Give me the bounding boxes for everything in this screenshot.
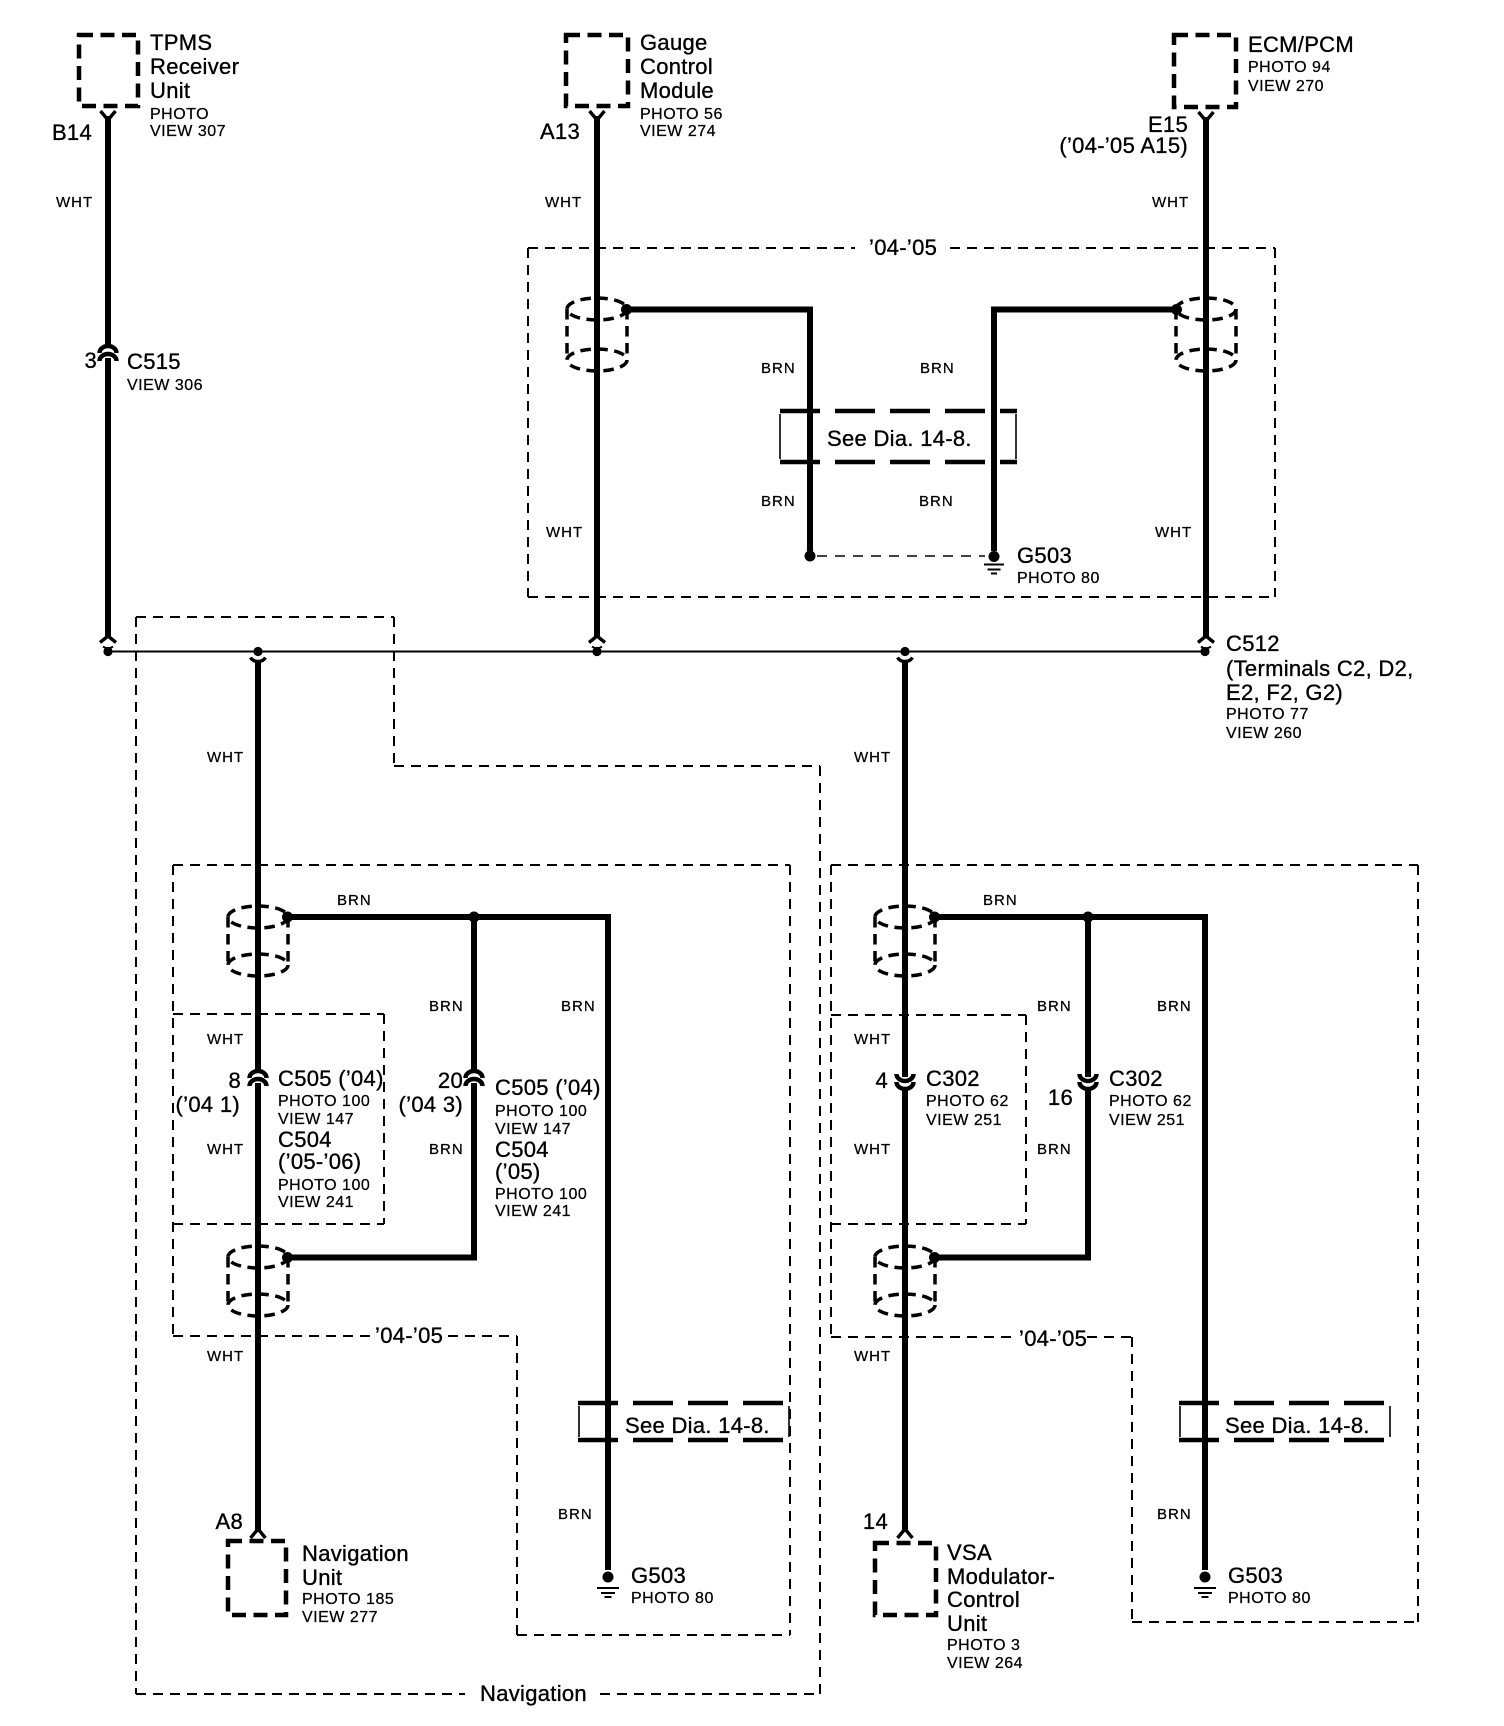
svg-text:VIEW 251: VIEW 251: [926, 1112, 1002, 1129]
svg-text:BRN: BRN: [761, 493, 796, 510]
connector symbol at bus end (TPMS wire): [100, 636, 116, 648]
svg-text:Modulator-: Modulator-: [947, 1564, 1055, 1589]
svg-text:B14: B14: [52, 120, 92, 145]
svg-text:C515: C515: [127, 349, 181, 374]
svg-text:WHT: WHT: [1155, 524, 1192, 541]
dashed region box '04-'05 (top, around gauge/ECM splices): [528, 235, 1275, 597]
svg-text:Navigation: Navigation: [480, 1681, 587, 1706]
svg-text:BRN: BRN: [1157, 998, 1192, 1015]
svg-text:BRN: BRN: [983, 892, 1018, 909]
svg-text:BRN: BRN: [561, 998, 596, 1015]
svg-text:G503: G503: [1228, 1563, 1283, 1588]
splice cylinder (Gauge wire, '04-'05): [567, 298, 627, 371]
connector symbol at bus end (Gauge wire): [589, 636, 605, 648]
wire WHT from C515 down to bus C512: [105, 358, 111, 636]
connector fork at ECM pin E15: [1199, 112, 1214, 121]
wire WHT from C505 pin 8 down to Navigation Unit: [255, 1083, 261, 1532]
wire WHT from TPMS B14 down to C515: [105, 116, 111, 348]
connector C505/C504 symbol at pin 20: [466, 1071, 483, 1086]
svg-text:VIEW 270: VIEW 270: [1248, 78, 1324, 95]
node dot on Gauge splice: [621, 304, 632, 315]
splice cylinder (Navigation branch upper, '04-'05): [228, 906, 288, 976]
splice cylinder (VSA branch upper, '04-'05): [875, 906, 935, 976]
connector C302 symbol at pin 16 (pointing down): [1080, 1074, 1097, 1089]
connector C515 symbol (in-line connector pair): [100, 346, 117, 361]
svg-text:Gauge: Gauge: [640, 30, 708, 55]
svg-text:(’04 3): (’04 3): [399, 1092, 463, 1117]
connector symbol below bus (VSA branch): [898, 658, 913, 662]
ground G503 (left lower): [597, 1563, 714, 1607]
splice cylinder (VSA branch lower, '04-'05): [875, 1246, 935, 1316]
svg-text:BRN: BRN: [1037, 998, 1072, 1015]
svg-text:PHOTO 100: PHOTO 100: [495, 1186, 587, 1203]
svg-text:VIEW 307: VIEW 307: [150, 123, 226, 140]
node dot on upper right splice: [929, 912, 940, 923]
svg-text:(’04 1): (’04 1): [176, 1092, 240, 1117]
svg-text:C512: C512: [1226, 631, 1280, 656]
wire BRN from junction down through C302 pin 16 to lower splice: [935, 917, 1088, 1258]
wire WHT from C302 pin 4 down to VSA unit: [902, 1087, 908, 1532]
svg-text:C505 (’04): C505 (’04): [278, 1066, 384, 1091]
svg-text:PHOTO 80: PHOTO 80: [631, 1590, 714, 1607]
svg-text:See Dia. 14-8.: See Dia. 14-8.: [1225, 1413, 1370, 1438]
svg-text:8: 8: [228, 1068, 241, 1093]
See Dia. 14-8. reference box (left lower): [578, 1403, 790, 1440]
svg-text:C505 (’04): C505 (’04): [495, 1075, 601, 1100]
svg-text:Navigation: Navigation: [302, 1541, 409, 1566]
node dot TPMS at bus: [103, 647, 112, 656]
svg-text:PHOTO 80: PHOTO 80: [1228, 1590, 1311, 1607]
wire BRN from ECM splice left then down to ground G503 (top): [994, 310, 1177, 552]
bus wire C512 (terminals C2,D2,E2,F2,G2): [108, 651, 1205, 653]
wire WHT from Gauge A13 down to bus C512: [594, 116, 600, 636]
wire BRN from upper left splice right then down to ground G503 (left): [287, 917, 608, 1570]
wire BRN from upper right splice right then down to ground G503 (right): [934, 917, 1205, 1570]
connector C505/C504 label block (left): [278, 1066, 384, 1211]
node dot Navigation branch on bus: [253, 647, 262, 656]
svg-text:WHT: WHT: [207, 1031, 244, 1048]
svg-text:BRN: BRN: [761, 360, 796, 377]
svg-text:WHT: WHT: [207, 1348, 244, 1365]
svg-text:VIEW 260: VIEW 260: [1226, 725, 1302, 742]
svg-text:14: 14: [863, 1509, 888, 1534]
wire WHT from bus down to C505 pin 8: [255, 662, 261, 1073]
svg-text:PHOTO 94: PHOTO 94: [1248, 59, 1331, 76]
svg-text:(’05): (’05): [495, 1159, 541, 1184]
node dot end of left BRN wire: [805, 551, 816, 562]
svg-text:PHOTO 62: PHOTO 62: [926, 1093, 1009, 1110]
svg-text:(Terminals C2, D2,: (Terminals C2, D2,: [1226, 656, 1414, 681]
svg-text:Unit: Unit: [150, 78, 190, 103]
svg-text:BRN: BRN: [1037, 1141, 1072, 1158]
svg-text:WHT: WHT: [56, 194, 93, 211]
See Dia. 14-8. reference box (top): [780, 411, 1017, 462]
svg-text:BRN: BRN: [429, 1141, 464, 1158]
svg-text:Unit: Unit: [302, 1565, 342, 1590]
connector C302 label block (right): [1109, 1066, 1192, 1129]
svg-text:WHT: WHT: [1152, 194, 1189, 211]
svg-text:A8: A8: [215, 1509, 243, 1534]
svg-text:PHOTO 100: PHOTO 100: [278, 1093, 370, 1110]
dashed region box '04-'05 (left, around navigation splices): [173, 865, 790, 1635]
svg-text:BRN: BRN: [337, 892, 372, 909]
svg-text:Control: Control: [640, 54, 713, 79]
svg-text:Receiver: Receiver: [150, 54, 239, 79]
svg-text:ECM/PCM: ECM/PCM: [1248, 32, 1354, 57]
node dot VSA branch on bus: [900, 647, 909, 656]
connector C302 symbol at pin 4 (pointing down): [897, 1074, 914, 1089]
svg-text:16: 16: [1048, 1085, 1073, 1110]
svg-text:Control: Control: [947, 1587, 1020, 1612]
connector fork at TPMS pin B14: [101, 111, 116, 120]
svg-text:VIEW 274: VIEW 274: [640, 123, 716, 140]
svg-text:WHT: WHT: [854, 749, 891, 766]
svg-text:C302: C302: [1109, 1066, 1163, 1091]
Gauge Control Module box: [566, 30, 723, 140]
dashed region box Navigation (outer): [136, 617, 820, 1706]
svg-text:VIEW 264: VIEW 264: [947, 1655, 1023, 1672]
connector symbol below bus (Navigation branch): [251, 658, 266, 662]
svg-text:PHOTO 77: PHOTO 77: [1226, 706, 1309, 723]
svg-text:E2, F2, G2): E2, F2, G2): [1226, 680, 1343, 705]
splice cylinder (Navigation branch lower, '04-'05): [228, 1246, 288, 1316]
svg-text:A13: A13: [540, 119, 580, 144]
svg-text:BRN: BRN: [920, 360, 955, 377]
wire BRN from Gauge splice right then down to G503 (top): [626, 310, 810, 552]
connector fork at Gauge pin A13: [590, 111, 605, 120]
svg-text:BRN: BRN: [558, 1506, 593, 1523]
svg-text:G503: G503: [1017, 543, 1072, 568]
svg-text:G503: G503: [631, 1563, 686, 1588]
svg-text:PHOTO 62: PHOTO 62: [1109, 1093, 1192, 1110]
VSA Modulator-Control Unit box: [875, 1540, 1055, 1672]
svg-text:BRN: BRN: [429, 998, 464, 1015]
svg-text:Module: Module: [640, 78, 714, 103]
node dot Gauge at bus: [592, 647, 601, 656]
ground G503 (right lower): [1194, 1563, 1311, 1607]
dashed link wire to ground G503 (top): [817, 555, 985, 557]
svg-text:PHOTO 100: PHOTO 100: [495, 1103, 587, 1120]
node dot on lower right splice: [929, 1252, 940, 1263]
svg-text:WHT: WHT: [854, 1141, 891, 1158]
svg-text:WHT: WHT: [207, 1141, 244, 1158]
wire BRN from junction down through C505 pin 20 to lower splice: [288, 917, 474, 1258]
svg-text:PHOTO 56: PHOTO 56: [640, 106, 723, 123]
svg-text:VIEW 306: VIEW 306: [127, 377, 203, 394]
svg-text:VIEW 241: VIEW 241: [278, 1194, 354, 1211]
svg-text:Unit: Unit: [947, 1611, 987, 1636]
svg-text:’04-’05: ’04-’05: [1019, 1326, 1087, 1351]
connector C505/C504 label block (middle): [495, 1075, 601, 1220]
dashed region box '04-'05 (right, around VSA splices): [831, 865, 1418, 1622]
svg-text:3: 3: [84, 348, 97, 373]
Navigation Unit box: [228, 1541, 409, 1626]
svg-text:WHT: WHT: [207, 749, 244, 766]
svg-text:C302: C302: [926, 1066, 980, 1091]
connector fork at Navigation Unit pin A8: [251, 1529, 266, 1538]
svg-text:VSA: VSA: [947, 1540, 992, 1565]
svg-text:PHOTO 185: PHOTO 185: [302, 1591, 394, 1608]
svg-text:PHOTO 3: PHOTO 3: [947, 1637, 1020, 1654]
svg-text:4: 4: [875, 1068, 888, 1093]
node dot on ECM splice: [1171, 304, 1182, 315]
ECM/PCM box: [1174, 32, 1354, 107]
node junction dot BRN (left): [469, 912, 480, 923]
connector C505/C504 symbol at pin 8: [250, 1071, 267, 1086]
ground G503 (top): [984, 543, 1100, 587]
svg-text:WHT: WHT: [546, 524, 583, 541]
svg-text:VIEW 147: VIEW 147: [278, 1111, 354, 1128]
connector symbol at bus end (ECM wire): [1198, 636, 1214, 648]
svg-text:’04-’05: ’04-’05: [375, 1323, 443, 1348]
svg-text:20: 20: [438, 1068, 463, 1093]
svg-text:TPMS: TPMS: [150, 30, 212, 55]
svg-text:PHOTO 80: PHOTO 80: [1017, 570, 1100, 587]
svg-text:BRN: BRN: [1157, 1506, 1192, 1523]
wire WHT from bus down to C302 pin 4: [902, 662, 908, 1077]
node dot ECM at bus end: [1200, 647, 1209, 656]
svg-text:BRN: BRN: [919, 493, 954, 510]
connector C302 label block (left): [926, 1066, 1009, 1129]
svg-text:See Dia. 14-8.: See Dia. 14-8.: [827, 426, 972, 451]
node junction dot BRN (right): [1083, 912, 1094, 923]
svg-text:PHOTO: PHOTO: [150, 106, 209, 123]
svg-text:’04-’05: ’04-’05: [869, 235, 937, 260]
node dot on upper left splice: [282, 912, 293, 923]
svg-text:VIEW 147: VIEW 147: [495, 1121, 571, 1138]
svg-text:PHOTO 100: PHOTO 100: [278, 1177, 370, 1194]
svg-text:VIEW 277: VIEW 277: [302, 1609, 378, 1626]
connector fork at VSA unit pin 14: [898, 1529, 913, 1538]
See Dia. 14-8. reference box (right lower): [1179, 1403, 1391, 1440]
splice cylinder (ECM wire, '04-'05): [1176, 298, 1236, 371]
svg-text:WHT: WHT: [545, 194, 582, 211]
svg-text:VIEW 241: VIEW 241: [495, 1203, 571, 1220]
connector C512 label block: [1226, 631, 1414, 742]
svg-text:WHT: WHT: [854, 1348, 891, 1365]
svg-text:WHT: WHT: [854, 1031, 891, 1048]
svg-text:(’04-’05 A15): (’04-’05 A15): [1059, 133, 1188, 158]
svg-text:(’05-’06): (’05-’06): [278, 1149, 361, 1174]
wire WHT from ECM E15 down to bus C512: [1203, 117, 1209, 636]
svg-text:See Dia. 14-8.: See Dia. 14-8.: [625, 1413, 770, 1438]
svg-text:VIEW 251: VIEW 251: [1109, 1112, 1185, 1129]
TPMS Receiver Unit box: [79, 30, 239, 140]
node dot on lower left splice: [282, 1252, 293, 1263]
